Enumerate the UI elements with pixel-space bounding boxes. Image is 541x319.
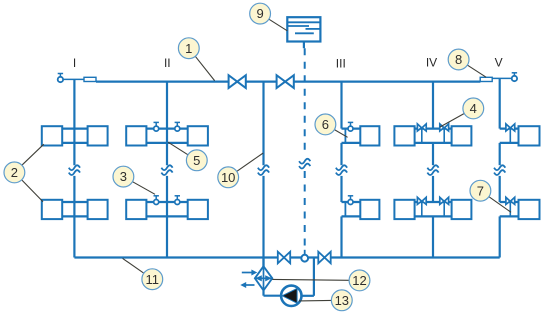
svg-text:4: 4 bbox=[470, 101, 477, 116]
svg-text:V: V bbox=[495, 55, 503, 69]
svg-text:IV: IV bbox=[426, 55, 437, 69]
svg-text:II: II bbox=[164, 56, 171, 70]
svg-text:9: 9 bbox=[256, 6, 263, 21]
svg-text:10: 10 bbox=[221, 170, 235, 185]
svg-text:I: I bbox=[73, 56, 76, 70]
svg-text:1: 1 bbox=[185, 41, 192, 56]
svg-text:III: III bbox=[336, 56, 346, 70]
svg-text:2: 2 bbox=[11, 165, 18, 180]
svg-text:8: 8 bbox=[455, 52, 462, 67]
svg-text:7: 7 bbox=[477, 183, 484, 198]
svg-text:11: 11 bbox=[146, 272, 160, 287]
svg-text:5: 5 bbox=[193, 153, 200, 168]
svg-text:6: 6 bbox=[322, 117, 329, 132]
svg-text:12: 12 bbox=[352, 273, 366, 288]
svg-text:3: 3 bbox=[120, 169, 127, 184]
svg-text:13: 13 bbox=[335, 293, 349, 308]
